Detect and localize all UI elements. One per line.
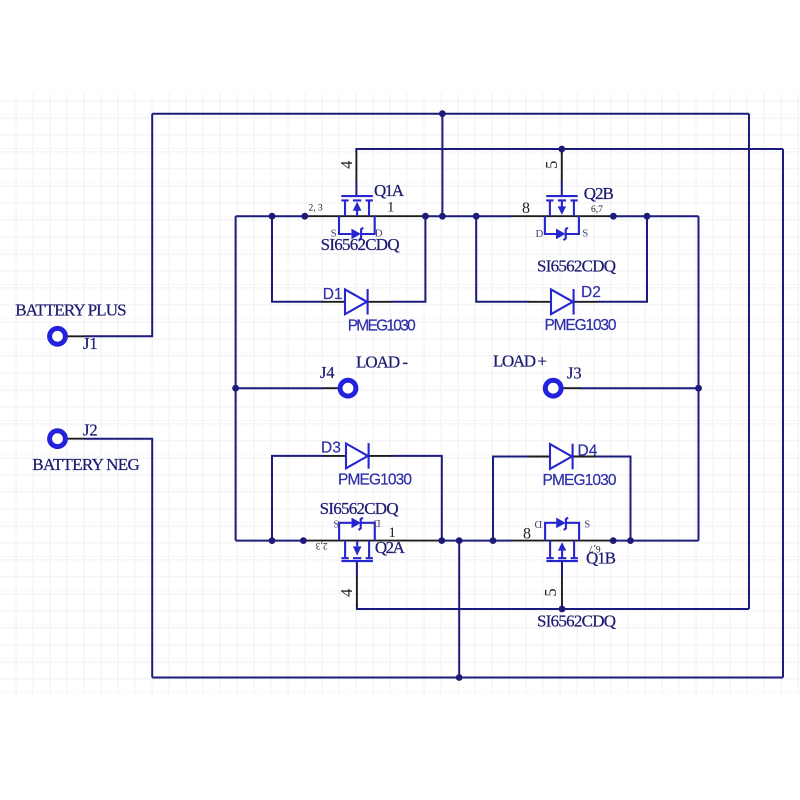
diode D1 (323, 286, 417, 335)
junction top channel D2 right (644, 213, 651, 220)
wire D3 loop (272, 456, 442, 541)
svg-text:5: 5 (541, 588, 560, 596)
junction bottom gate rail (559, 606, 566, 613)
diode D2 (529, 284, 617, 334)
svg-text:SI6562CDQ: SI6562CDQ (537, 612, 616, 631)
wire bottom channel middle (441, 540, 511, 542)
svg-text:LOAD +: LOAD + (493, 352, 547, 371)
junction top channel D1 right (422, 213, 429, 220)
svg-text:PMEG1030: PMEG1030 (543, 472, 617, 489)
svg-text:D1: D1 (323, 286, 343, 303)
svg-text:D4: D4 (578, 443, 598, 460)
junction Q2B source pins (610, 213, 617, 220)
svg-text:S: S (582, 228, 588, 240)
svg-text:J2: J2 (83, 420, 98, 439)
junction Q1B source pins (610, 537, 617, 544)
connector J4 (320, 363, 356, 396)
svg-text:PMEG1030: PMEG1030 (338, 472, 412, 489)
junction J3 node (695, 385, 702, 392)
junction top channel D2 left (473, 213, 480, 220)
svg-text:LOAD -: LOAD - (356, 353, 408, 372)
svg-text:4: 4 (337, 161, 356, 169)
junction bottom channel D3 left (269, 537, 276, 544)
svg-text:8: 8 (523, 526, 531, 543)
svg-text:J3: J3 (567, 364, 582, 383)
svg-text:8: 8 (522, 200, 530, 217)
junction bottom channel D3 right (438, 537, 445, 544)
wire D1 loop (272, 216, 425, 302)
junction bottom rail (456, 674, 463, 681)
wire bottom mid vertical (458, 541, 460, 678)
wire top channel right (613, 215, 699, 217)
svg-text:D: D (536, 228, 544, 240)
wire far right vertical (782, 149, 784, 678)
svg-text:4: 4 (337, 589, 356, 597)
junction Q2A source pins (300, 537, 307, 544)
transistor Q2A (303, 499, 441, 607)
connector J1 (50, 328, 98, 353)
svg-text:Q2B: Q2B (584, 184, 614, 203)
wire J4 stub (236, 387, 323, 389)
transistor Q1B (511, 518, 616, 631)
svg-text:PMEG1030: PMEG1030 (545, 317, 617, 334)
wire bottom rail (152, 677, 783, 679)
svg-text:J4: J4 (320, 363, 335, 382)
junction bottom channel D4 right (627, 537, 634, 544)
svg-text:D2: D2 (581, 284, 601, 301)
svg-text:PMEG1030: PMEG1030 (348, 318, 416, 335)
svg-text:BATTERY NEG: BATTERY NEG (32, 455, 140, 474)
svg-text:S: S (584, 519, 590, 531)
wire Q1B gate riser (561, 604, 563, 609)
transistor Q2B (511, 152, 616, 276)
wire J3 stub (580, 387, 699, 389)
junction bottom channel D4 left (490, 537, 497, 544)
connector J2 (50, 420, 98, 446)
svg-text:J1: J1 (83, 334, 98, 353)
junction top rail (439, 110, 446, 117)
svg-text:D: D (534, 518, 542, 530)
svg-text:D: D (373, 517, 381, 529)
svg-text:BATTERY PLUS: BATTERY PLUS (15, 301, 126, 320)
svg-text:D3: D3 (321, 440, 341, 457)
wire right vertical from top rail (748, 114, 750, 609)
junction J4 node (232, 385, 239, 392)
wire bottom channel left (236, 540, 304, 542)
junction top channel mid (439, 213, 446, 220)
junction bottom channel mid (456, 537, 463, 544)
svg-text:5: 5 (542, 161, 561, 169)
svg-text:Q1A: Q1A (374, 181, 405, 200)
wire left bridge leg (235, 216, 237, 540)
svg-text:1: 1 (387, 199, 395, 215)
svg-text:2, 3: 2, 3 (309, 204, 324, 214)
wire J2 stub to bottom rail (85, 439, 153, 678)
junction top channel D1 left (269, 213, 276, 220)
svg-text:6,7: 6,7 (591, 205, 603, 215)
svg-text:SI6562CDQ: SI6562CDQ (320, 499, 399, 518)
wire top channel left (236, 215, 306, 217)
wire J1 stub to left rail corner (85, 114, 153, 337)
junction second rail (558, 146, 565, 153)
wire D2 loop (476, 216, 647, 302)
wire second rail (356, 149, 783, 152)
wire Q2B gate riser (561, 149, 563, 154)
wire bottom channel right (613, 540, 699, 542)
svg-text:SI6562CDQ: SI6562CDQ (321, 235, 400, 254)
diode D3 (321, 440, 412, 489)
wire right bridge leg (698, 216, 700, 540)
svg-text:1: 1 (388, 525, 396, 541)
transistor Q1A (305, 152, 426, 255)
wire top rail (152, 113, 749, 115)
wire top channel middle (425, 215, 512, 217)
svg-text:S: S (333, 519, 339, 531)
connector J3 (545, 364, 581, 397)
svg-text:6,7: 6,7 (588, 543, 600, 553)
svg-text:2,3: 2,3 (315, 540, 327, 550)
junction Q1A source pins (301, 213, 308, 220)
svg-text:SI6562CDQ: SI6562CDQ (537, 257, 616, 276)
wire top mid vertical (441, 114, 443, 217)
diode D4 (528, 443, 617, 489)
wire bottom gate rail (357, 604, 749, 609)
wire D4 loop (493, 457, 631, 541)
